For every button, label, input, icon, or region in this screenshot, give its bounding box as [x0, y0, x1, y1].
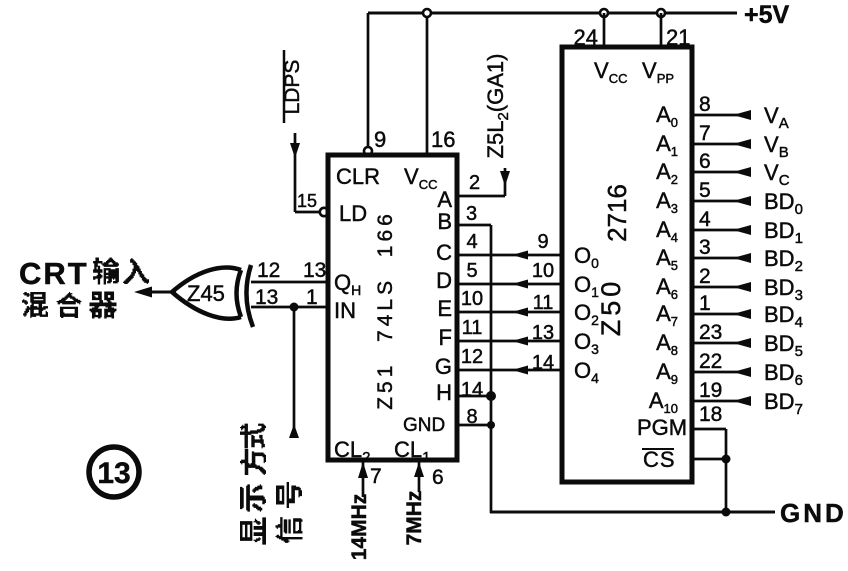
svg-text:E: E [437, 296, 452, 321]
wire A1 to VB [692, 143, 750, 146]
wire +5V to Vcc pin 16 [426, 17, 429, 155]
svg-text:19: 19 [699, 379, 722, 402]
svg-text:7: 7 [699, 122, 711, 145]
wire A8 to BD5 [692, 342, 750, 345]
svg-text:2: 2 [469, 172, 480, 194]
svg-text:6: 6 [699, 150, 711, 173]
svg-text:CLR: CLR [336, 164, 380, 189]
svg-text:GND: GND [403, 415, 445, 436]
wire 2716 O1 to 166 input (row y=284) [457, 283, 562, 286]
svg-text:D: D [436, 268, 452, 293]
label display-mode (rotated) [240, 517, 266, 544]
svg-text:3: 3 [466, 203, 477, 225]
figure number 13 (circled) [89, 447, 139, 497]
wire A9 to BD6 [692, 371, 750, 374]
wire H tie to ground bus [457, 395, 491, 398]
+5V power rail [368, 12, 737, 15]
wire A3 to BD0 [692, 200, 750, 203]
wire 2716 O4 to 166 input (row y=370) [457, 369, 562, 372]
14MHz clock input arrow [362, 460, 365, 497]
svg-text:8: 8 [699, 93, 711, 116]
wire A2 to VC [692, 171, 750, 174]
svg-text:9: 9 [537, 231, 548, 253]
label signal (rotated) [275, 517, 302, 543]
svg-text:H: H [436, 380, 452, 405]
wire A10 to BD7 [692, 400, 750, 403]
wire PGM to ground [692, 428, 726, 431]
svg-text:Z50: Z50 [596, 278, 626, 337]
svg-text:11: 11 [533, 292, 554, 314]
ground bus vertical [490, 225, 493, 513]
svg-text:10: 10 [461, 288, 483, 310]
svg-text:G: G [435, 354, 452, 379]
wire pin A to Z5L2(GA1) [457, 195, 505, 198]
svg-text:4: 4 [699, 208, 711, 231]
svg-text:11: 11 [462, 317, 483, 339]
svg-text:5: 5 [466, 260, 477, 282]
svg-text:F: F [439, 325, 452, 350]
node at pin16 riser on +5V rail [423, 9, 431, 17]
svg-text:C: C [436, 240, 452, 265]
junction node pin21 on +5V rail [657, 9, 665, 17]
junction node H-ground [486, 391, 496, 401]
svg-text:CS: CS [643, 447, 676, 472]
svg-text:14: 14 [461, 379, 483, 401]
junction node CS-PGM [722, 455, 731, 464]
svg-text:LD: LD [339, 201, 367, 226]
LDPS signal label (rotated, with overline) [283, 50, 286, 123]
label CRT input mixer line 2 [22, 292, 48, 318]
svg-text:13: 13 [303, 259, 326, 282]
svg-text:3: 3 [699, 236, 711, 259]
wire A0 to VA [692, 114, 750, 117]
wire +5V to 2716 Vcc pin 24 [603, 13, 606, 47]
wire +5V to 2716 Vpp pin 21 [660, 13, 663, 47]
svg-text:12: 12 [257, 259, 280, 282]
XOR gate Z45 body [172, 268, 241, 319]
EPROM Z50 2716 body [562, 47, 692, 482]
svg-text:2: 2 [699, 265, 711, 288]
junction node pin24 on +5V rail [600, 9, 608, 17]
svg-text:16: 16 [431, 127, 455, 152]
gate input wire from IN pin 1 [251, 306, 328, 309]
display-mode signal wire with up arrow [293, 307, 296, 438]
wire 2716 O0 to 166 input (row y=255) [457, 254, 562, 257]
svg-text:2716: 2716 [602, 184, 632, 242]
svg-text:+5V: +5V [744, 1, 790, 29]
svg-text:Z45: Z45 [187, 281, 225, 306]
wire A5 to BD2 [692, 257, 750, 260]
wire LDPS to LD pin 15 [295, 211, 319, 214]
svg-text:GND: GND [780, 498, 847, 528]
svg-text:13: 13 [255, 286, 278, 309]
wire B tie to ground bus [457, 224, 491, 227]
svg-text:6: 6 [432, 466, 444, 489]
CLR pin 9 bubble [364, 147, 372, 155]
shift register Z51 74LS166 body [328, 155, 457, 460]
junction node on IN wire [290, 303, 299, 312]
svg-text:8: 8 [466, 406, 477, 428]
svg-text:1: 1 [699, 292, 711, 315]
wire 2716 O3 to 166 input (row y=341) [457, 340, 562, 343]
svg-text:13: 13 [97, 457, 130, 490]
svg-text:5: 5 [699, 179, 711, 202]
svg-text:10: 10 [532, 260, 554, 282]
wire A7 to BD4 [692, 313, 750, 316]
svg-text:CRT: CRT [19, 256, 89, 291]
svg-text:9: 9 [374, 127, 386, 152]
svg-text:18: 18 [699, 403, 722, 426]
gate input wire from QH pin 13 [251, 281, 328, 284]
wire CS stub to ground [692, 458, 726, 461]
svg-text:22: 22 [699, 350, 722, 373]
svg-text:23: 23 [699, 321, 722, 344]
junction node GND8 [487, 421, 495, 429]
svg-text:PGM: PGM [637, 415, 687, 440]
wire A6 to BD3 [692, 286, 750, 289]
svg-text:B: B [437, 209, 452, 234]
svg-text:12: 12 [461, 346, 483, 368]
svg-text:Z5L2(GA1): Z5L2(GA1) [483, 54, 512, 159]
svg-text:7MHz: 7MHz [403, 491, 426, 546]
svg-text:13: 13 [532, 322, 554, 344]
wire +5V to CLR pin 9 [367, 13, 370, 147]
7MHz clock input arrow [418, 460, 421, 492]
GND rail [490, 511, 775, 514]
LDPS arrow into LD [294, 133, 297, 212]
wire A4 to BD1 [692, 229, 750, 232]
svg-text:IN: IN [334, 298, 356, 323]
svg-text:7: 7 [370, 465, 382, 488]
LD pin 15 bubble [320, 208, 328, 216]
svg-text:LDPS: LDPS [281, 60, 304, 115]
junction node PGM-GND rail [722, 508, 731, 517]
gate output arrow to CRT mixer [148, 291, 176, 294]
svg-text:Z51 74LS 166: Z51 74LS 166 [374, 210, 397, 410]
svg-text:14: 14 [532, 352, 554, 374]
wire GND pin 8 tie to ground bus [457, 424, 491, 427]
svg-text:4: 4 [466, 231, 477, 253]
svg-text:15: 15 [297, 191, 317, 211]
svg-text:14MHz: 14MHz [348, 494, 371, 561]
wire 2716 O2 to 166 input (row y=312) [457, 311, 562, 314]
svg-text:1: 1 [306, 286, 318, 309]
